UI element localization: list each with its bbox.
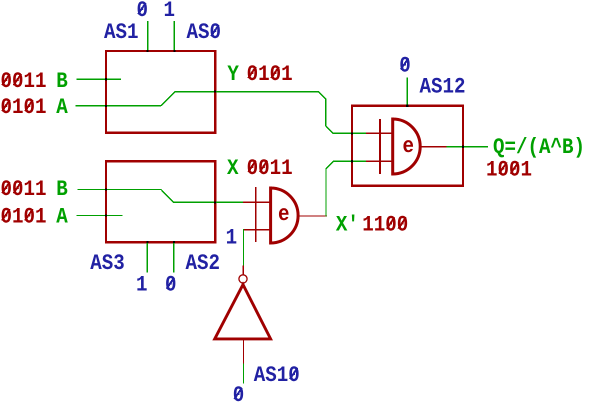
svg-text:1: 1 bbox=[136, 273, 148, 298]
svg-text:0: 0 bbox=[165, 273, 177, 298]
svg-text:0: 0 bbox=[399, 53, 411, 78]
svg-text:X': X' bbox=[336, 213, 359, 238]
xor U1 output pin bbox=[298, 215, 327, 217]
svg-text:e: e bbox=[278, 202, 290, 227]
svg-text:AS0: AS0 bbox=[187, 20, 222, 45]
wire X' from U1 output to U2 lower input bbox=[326, 161, 367, 216]
svg-text:0011: 0011 bbox=[247, 156, 293, 181]
mux M1 select pin AS1 bbox=[147, 22, 149, 50]
svg-text:B: B bbox=[56, 177, 68, 202]
wire A stub into M2 bbox=[77, 215, 122, 217]
xor gate U2 body (D shape) bbox=[393, 119, 420, 174]
wire A into M1 with selected-path jog bbox=[76, 92, 175, 106]
mux M1 box bbox=[106, 51, 215, 133]
wire B into M2 with selected-path jog, to XOR U1 upper input bbox=[78, 190, 244, 203]
xor gate U1 body (D shape) bbox=[271, 188, 299, 243]
svg-text:0011: 0011 bbox=[1, 69, 47, 94]
svg-text:e: e bbox=[403, 134, 415, 159]
svg-text:A: A bbox=[56, 204, 68, 229]
svg-text:0101: 0101 bbox=[1, 95, 47, 120]
svg-text:AS12: AS12 bbox=[420, 75, 466, 100]
inverter U3 input pin bbox=[243, 340, 245, 364]
xor U1 upper input pin bbox=[244, 201, 271, 203]
mux M2 box bbox=[106, 161, 215, 242]
xor U1 lower input pin bbox=[244, 229, 271, 231]
svg-text:1001: 1001 bbox=[486, 158, 532, 183]
wire Q from U2 output bbox=[447, 146, 487, 148]
svg-text:AS1: AS1 bbox=[104, 20, 139, 45]
wire from inverter output to U1 lower input bbox=[243, 230, 245, 266]
U2 output pin bbox=[420, 146, 447, 148]
inverter U3 output pin stub bbox=[242, 266, 244, 274]
svg-text:1: 1 bbox=[226, 225, 238, 250]
wire B stub into M1 bbox=[77, 78, 121, 80]
svg-text:Q=/(A^B): Q=/(A^B) bbox=[493, 135, 585, 160]
svg-text:1: 1 bbox=[164, 0, 176, 23]
wire/box crossing junction pixels bbox=[105, 50, 464, 243]
svg-text:AS2: AS2 bbox=[186, 251, 221, 276]
mux M2 select pin AS3 bbox=[146, 243, 148, 272]
inverter U3 triangle bbox=[215, 285, 271, 339]
xor block U2 box bbox=[352, 106, 463, 186]
inverter U3 output bubble bbox=[239, 275, 247, 283]
svg-text:B: B bbox=[56, 69, 68, 94]
wire Y from M1 to XOR U2 upper input bbox=[175, 92, 366, 134]
U2 lower input pin bbox=[367, 160, 393, 162]
U2 upper input pin bbox=[367, 132, 393, 134]
U2 select pin AS12 bbox=[406, 78, 408, 106]
svg-text:A: A bbox=[56, 95, 68, 120]
mux M2 select pin AS2 bbox=[173, 243, 175, 272]
svg-text:0011: 0011 bbox=[1, 177, 47, 202]
wire AS10 net bbox=[243, 364, 245, 383]
xor gate U2 input bar bbox=[379, 120, 381, 174]
svg-text:0101: 0101 bbox=[247, 62, 293, 87]
svg-text:AS3: AS3 bbox=[90, 251, 125, 276]
svg-text:Y: Y bbox=[227, 62, 239, 87]
mux M1 select pin AS0 bbox=[173, 22, 175, 50]
xor gate U1 input bar bbox=[255, 188, 257, 242]
svg-text:0101: 0101 bbox=[1, 204, 47, 229]
svg-text:X: X bbox=[227, 156, 239, 181]
